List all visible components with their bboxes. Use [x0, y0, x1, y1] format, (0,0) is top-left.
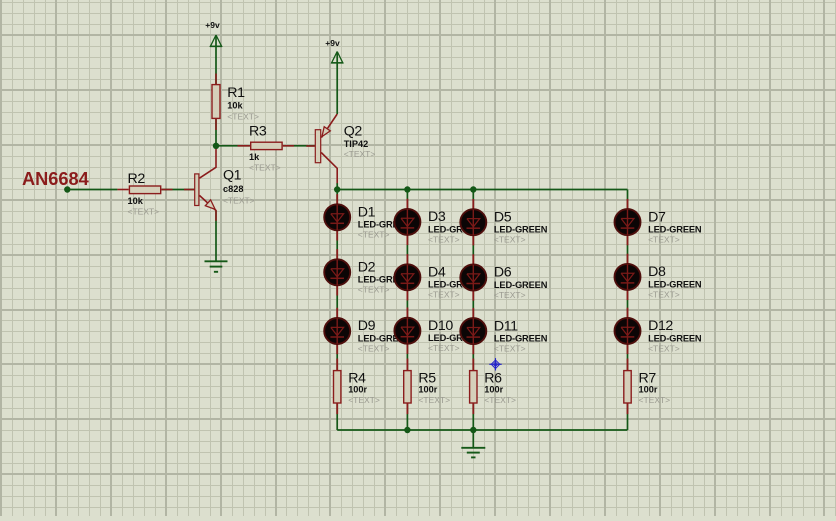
svg-text:R3: R3 — [249, 124, 267, 140]
svg-text:100r: 100r — [418, 384, 437, 394]
svg-text:D11: D11 — [494, 318, 518, 334]
svg-text:+9v: +9v — [325, 38, 340, 48]
svg-text:100r: 100r — [484, 384, 503, 394]
svg-text:D7: D7 — [648, 209, 666, 225]
svg-text:c828: c828 — [223, 184, 243, 194]
svg-text:LED-GREEN: LED-GREEN — [494, 334, 548, 344]
svg-text:<TEXT>: <TEXT> — [484, 395, 516, 405]
svg-text:LED-GREEN: LED-GREEN — [494, 280, 548, 290]
svg-text:<TEXT>: <TEXT> — [639, 395, 671, 405]
svg-text:<TEXT>: <TEXT> — [358, 230, 390, 240]
svg-text:LED-GREEN: LED-GREEN — [648, 225, 702, 235]
svg-text:<TEXT>: <TEXT> — [494, 290, 526, 300]
svg-text:1k: 1k — [249, 152, 260, 162]
svg-text:<TEXT>: <TEXT> — [494, 235, 526, 245]
svg-text:AN6684: AN6684 — [22, 169, 90, 189]
svg-text:<TEXT>: <TEXT> — [344, 149, 376, 159]
svg-text:<TEXT>: <TEXT> — [249, 162, 281, 172]
svg-text:<TEXT>: <TEXT> — [227, 111, 259, 121]
svg-text:D5: D5 — [494, 209, 512, 225]
svg-text:D2: D2 — [358, 260, 376, 276]
svg-text:D4: D4 — [428, 265, 446, 281]
svg-text:10k: 10k — [227, 100, 243, 110]
svg-text:LED-GREEN: LED-GREEN — [648, 279, 702, 289]
svg-text:<TEXT>: <TEXT> — [648, 289, 680, 299]
svg-text:<TEXT>: <TEXT> — [428, 234, 460, 244]
svg-text:Q2: Q2 — [344, 123, 363, 139]
svg-text:<TEXT>: <TEXT> — [428, 343, 460, 353]
svg-text:<TEXT>: <TEXT> — [648, 343, 680, 353]
svg-text:D3: D3 — [428, 209, 446, 225]
svg-text:D6: D6 — [494, 265, 512, 281]
svg-text:<TEXT>: <TEXT> — [358, 343, 390, 353]
svg-text:D10: D10 — [428, 318, 453, 334]
svg-text:<TEXT>: <TEXT> — [494, 344, 526, 354]
svg-text:100r: 100r — [348, 384, 367, 394]
svg-text:<TEXT>: <TEXT> — [358, 285, 390, 295]
svg-text:R2: R2 — [128, 171, 146, 187]
svg-text:LED-GREEN: LED-GREEN — [494, 225, 548, 235]
svg-text:10k: 10k — [128, 196, 144, 206]
svg-text:Q1: Q1 — [223, 168, 242, 184]
svg-text:<TEXT>: <TEXT> — [428, 290, 460, 300]
svg-text:<TEXT>: <TEXT> — [648, 235, 680, 245]
svg-text:<TEXT>: <TEXT> — [223, 195, 255, 205]
svg-text:D12: D12 — [648, 318, 673, 334]
svg-text:<TEXT>: <TEXT> — [128, 207, 160, 217]
svg-text:<TEXT>: <TEXT> — [348, 395, 380, 405]
svg-text:TIP42: TIP42 — [344, 139, 369, 149]
svg-text:D1: D1 — [358, 205, 376, 221]
svg-text:D8: D8 — [648, 264, 666, 280]
svg-text:LED-GREEN: LED-GREEN — [648, 333, 702, 343]
svg-text:<TEXT>: <TEXT> — [418, 395, 450, 405]
svg-text:100r: 100r — [639, 384, 658, 394]
svg-text:D9: D9 — [358, 318, 376, 334]
svg-text:+9v: +9v — [205, 20, 220, 30]
svg-text:R1: R1 — [227, 85, 245, 101]
